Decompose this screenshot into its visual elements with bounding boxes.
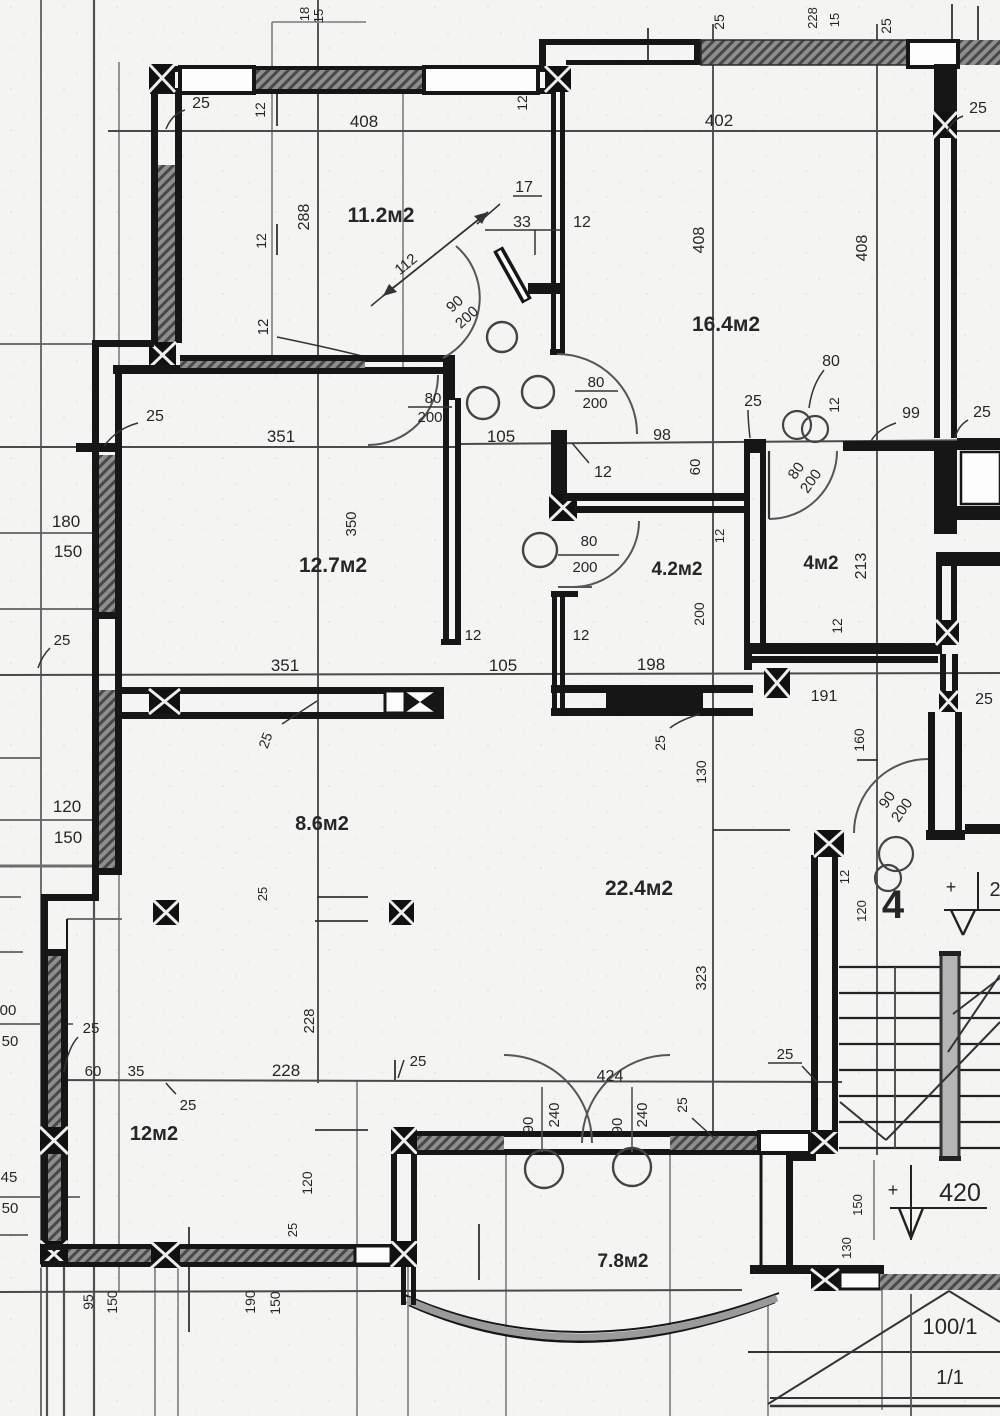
svg-text:240: 240 bbox=[546, 1102, 563, 1127]
dim 160 rotated bbox=[851, 728, 867, 752]
dim 99 with leader bbox=[871, 405, 920, 441]
column K10 (x 549, y 494) bbox=[549, 494, 577, 521]
dim 25 leader (12.7 bottom wall) bbox=[255, 701, 317, 750]
title block diagonal wedge bbox=[748, 1291, 1000, 1406]
dim 408 top bbox=[350, 112, 378, 131]
dim 90/240 rotated pair (right balcony door) bbox=[609, 1102, 651, 1134]
svg-text:12: 12 bbox=[252, 102, 268, 118]
column K6 bottom mid bbox=[151, 1242, 180, 1268]
svg-text:105: 105 bbox=[489, 656, 517, 675]
dim 90/200 rotated diagonal (door D1) bbox=[440, 290, 482, 333]
svg-text:100/1: 100/1 bbox=[922, 1314, 977, 1339]
dimension tick x=395 room12 bbox=[394, 1060, 396, 1080]
tick y=830 bbox=[713, 829, 790, 831]
svg-text:12: 12 bbox=[573, 627, 590, 644]
axis line vertical x=882 bottom bbox=[881, 1274, 883, 1410]
column K3 left mid bbox=[149, 342, 176, 368]
dim 80 (door D4) with leader bbox=[809, 353, 840, 408]
window box in 12.7 bottom wall bbox=[385, 691, 405, 713]
dim 408 rotated (right of 16.4) bbox=[854, 235, 871, 262]
wall: 4m2 bottom wall (y 643-663) bbox=[744, 643, 942, 670]
svg-text:4.2м2: 4.2м2 bbox=[651, 559, 702, 580]
wall: right wall upper double (x 934-957, y 138-438) bbox=[934, 64, 957, 438]
room label 16.4m2 bbox=[692, 313, 760, 336]
svg-text:213: 213 bbox=[853, 553, 870, 580]
column K16 (x 811, y 1269) bbox=[811, 1269, 839, 1291]
dim 25 rotated with leader (below 198 wall) bbox=[652, 714, 700, 751]
dim 25 (left wall) leader bbox=[104, 408, 164, 446]
dim 98 bbox=[653, 427, 671, 444]
wall: right double below (y 566-620) bbox=[936, 566, 957, 620]
wall: right wall of room 12.7 (x 443-461) bbox=[441, 355, 461, 645]
door D2 arc (into room 12.7) bbox=[368, 375, 438, 445]
axis line vertical x=768 bottom bbox=[767, 1297, 769, 1416]
dim 12 rotated upper bbox=[252, 102, 268, 118]
dim 130 rotated (landing) bbox=[839, 1237, 854, 1259]
svg-text:80: 80 bbox=[588, 374, 605, 391]
svg-text:4: 4 bbox=[882, 883, 905, 927]
window W2 in top wall bbox=[424, 67, 538, 93]
main dimension line y=441 right bbox=[460, 440, 1000, 444]
left edge dash y=758 bbox=[0, 757, 40, 759]
svg-text:191: 191 bbox=[811, 688, 838, 705]
dim 80/200 rotated (door D4) bbox=[782, 456, 825, 497]
wall: right double (y 645-691) bbox=[940, 654, 958, 691]
axis line vertical x=272 bbox=[271, 22, 273, 355]
axis line vertical x=713 bbox=[712, 24, 714, 1135]
room label 12.7m2 bbox=[299, 554, 367, 577]
center tick y=921 bbox=[315, 920, 368, 922]
svg-text:323: 323 bbox=[693, 965, 710, 990]
main dimension line y=675 bbox=[0, 673, 1000, 675]
wall: step-out at lower left (y 894-956) bbox=[41, 894, 99, 956]
dim 25 (4m2 left) with leader bbox=[744, 393, 762, 438]
room label 7.8m2 bbox=[597, 1251, 648, 1272]
apartment number 4 bbox=[882, 883, 905, 927]
wall: outer left wall (x 92-122, y 340-875) bbox=[92, 340, 122, 898]
dim 35 bottom bbox=[128, 1063, 145, 1080]
wall: 4m2 left wall (x 744-766) bbox=[744, 450, 766, 654]
dim 198 bbox=[637, 655, 665, 674]
svg-text:408: 408 bbox=[350, 112, 378, 131]
stair stringer band bbox=[939, 951, 961, 1161]
dim 12 (mid) bbox=[573, 627, 590, 644]
main dimension line y=1080 bbox=[41, 1080, 842, 1082]
dim 323 rotated bbox=[693, 965, 710, 990]
main dimension line y=447 left bbox=[0, 446, 460, 448]
wall: top exterior hatched band (x 701-1000) bbox=[701, 40, 1000, 65]
dim 25 with leader (left bottom) bbox=[64, 1020, 99, 1072]
svg-text:130: 130 bbox=[693, 760, 709, 784]
wall: left wall of room 16.4 (x 551-565) bbox=[528, 92, 565, 355]
left edge dash y=1235 bbox=[0, 1234, 28, 1236]
svg-text:4м2: 4м2 bbox=[803, 553, 838, 574]
svg-text:120: 120 bbox=[299, 1171, 315, 1195]
svg-text:90: 90 bbox=[520, 1117, 537, 1134]
dim 120 rotated (stair area) bbox=[854, 900, 869, 922]
dimension tick x=479 bottom bbox=[478, 1224, 480, 1280]
title 1/1 bbox=[936, 1367, 964, 1389]
svg-text:+: + bbox=[946, 877, 957, 897]
dim 60 rotated bbox=[687, 459, 704, 476]
dimension tick x=189 bottom bbox=[188, 1227, 190, 1332]
column K5 left bottom corner bbox=[40, 1241, 68, 1267]
svg-text:350: 350 bbox=[343, 511, 360, 536]
column C1 freestanding (x 153, y 900) bbox=[153, 900, 179, 925]
svg-text:25: 25 bbox=[146, 408, 164, 425]
dim 12 rotated (stair area) bbox=[837, 870, 852, 884]
wall: white box section (x 758-811) bbox=[759, 1132, 810, 1153]
top rotated dims 228/15 bbox=[805, 7, 842, 29]
svg-text:25: 25 bbox=[711, 14, 727, 30]
door knob circles at stair door bbox=[875, 837, 913, 891]
wall: right corridor band y 552-566 bbox=[936, 552, 1000, 566]
wall edge projection x=47 bottom bbox=[46, 1267, 48, 1416]
svg-text:12: 12 bbox=[573, 214, 591, 231]
dim 112 rotated diagonal bbox=[392, 250, 421, 278]
svg-text:130: 130 bbox=[839, 1237, 854, 1259]
svg-text:25: 25 bbox=[674, 1097, 690, 1113]
window W1 in top wall bbox=[180, 67, 254, 93]
svg-text:60: 60 bbox=[85, 1063, 102, 1080]
dim 95 rotated bottom bbox=[80, 1294, 96, 1310]
svg-text:25: 25 bbox=[744, 393, 762, 410]
dim 150 rotated bottom left bbox=[104, 1290, 120, 1314]
svg-text:25: 25 bbox=[652, 735, 668, 751]
dim 105 upper bbox=[487, 427, 515, 446]
dim 191 bbox=[811, 688, 838, 705]
witness line x=403 room 11.2 bbox=[402, 72, 404, 368]
dim 190 rotated bottom bbox=[242, 1290, 258, 1314]
svg-text:25: 25 bbox=[255, 887, 270, 901]
dim 25 with underline + leader (stair hall) bbox=[768, 1046, 817, 1082]
dimension tick x=277 upper bbox=[276, 93, 278, 126]
dimension line y=609 left bbox=[0, 608, 119, 610]
dim 200 rotated (x704) bbox=[691, 602, 707, 626]
door D6 arc (stair hall door) bbox=[854, 759, 928, 833]
dimension line y=343 left bbox=[0, 343, 119, 345]
line below 100/1 bbox=[910, 1294, 912, 1416]
door D4 arc bbox=[769, 451, 837, 519]
dim 12 with leader (below 98) bbox=[572, 443, 612, 481]
svg-text:16.4м2: 16.4м2 bbox=[692, 313, 760, 336]
axis line x=155 bottom bbox=[154, 1267, 156, 1416]
svg-text:120: 120 bbox=[53, 797, 81, 816]
dimension tick x=978 top bbox=[977, 6, 979, 42]
wall: hatched band bottom right (x 880-1000) bbox=[880, 1274, 1000, 1290]
left edge dim 45/50 cut bbox=[1, 1169, 19, 1217]
top rotated dim 25 (x891) bbox=[878, 18, 894, 34]
elevation marker +2 (upper) bbox=[944, 872, 1000, 935]
stair break diagonals bbox=[840, 975, 1000, 1140]
window W5 right edge bbox=[961, 452, 1000, 504]
short top line y=22 bbox=[272, 21, 366, 23]
elevation text +420 bbox=[888, 1179, 981, 1207]
dim 12 with leader (12.7 top wall) bbox=[255, 319, 362, 356]
dim 25 top left with leader bbox=[166, 95, 210, 129]
svg-text:25: 25 bbox=[83, 1020, 100, 1037]
svg-text:150: 150 bbox=[54, 542, 82, 561]
column K14 (x 939, y 691) bbox=[939, 691, 958, 712]
window W3 top right bbox=[908, 41, 958, 67]
svg-text:25: 25 bbox=[975, 691, 993, 708]
dim 25 right lower bbox=[975, 691, 993, 708]
svg-text:200: 200 bbox=[417, 409, 442, 426]
dimension tick x=648 top bbox=[647, 28, 649, 64]
door D3 arc (hall to 16.4 lower) bbox=[557, 354, 637, 434]
balcony double door right arc bbox=[582, 1055, 670, 1152]
wall: bottom exterior of room 12 (y 1244-1267) bbox=[41, 1244, 417, 1267]
dim 25 rotated + leader (balcony right) bbox=[674, 1097, 714, 1138]
door knob circles at 4m2 door bbox=[783, 411, 828, 442]
svg-text:12: 12 bbox=[253, 233, 269, 249]
balcony door knob circle right bbox=[613, 1148, 651, 1186]
dim 25 top right with leader bbox=[947, 100, 987, 132]
axis line vertical x=357 bottom bbox=[356, 1080, 358, 1416]
svg-text:12: 12 bbox=[255, 319, 272, 336]
svg-text:288: 288 bbox=[296, 204, 313, 231]
inner step line y=919 bbox=[67, 918, 122, 920]
svg-text:25: 25 bbox=[192, 95, 210, 112]
dim 90/200 rotated (stair door) bbox=[873, 785, 916, 826]
column K17 in 12.7 bottom wall bbox=[149, 689, 180, 714]
svg-text:402: 402 bbox=[705, 111, 733, 130]
axis line vertical x=119 bbox=[118, 62, 120, 1292]
dim 80/200 stacked (door to 12.7) bbox=[408, 390, 452, 426]
dim 12 rotated near corner bbox=[514, 95, 530, 111]
svg-text:12: 12 bbox=[465, 627, 482, 644]
wall: lift shaft (x 758-884, y 1155-1274) bbox=[750, 1154, 884, 1274]
room label 4m2 bbox=[803, 553, 838, 574]
window W4 in room-12 bottom wall bbox=[355, 1246, 391, 1264]
svg-text:7.8м2: 7.8м2 bbox=[597, 1251, 648, 1272]
svg-text:12.7м2: 12.7м2 bbox=[299, 554, 367, 577]
svg-text:25: 25 bbox=[969, 100, 987, 117]
svg-text:+: + bbox=[888, 1180, 899, 1200]
dim 424 bbox=[597, 1068, 624, 1085]
axis line vertical x=318 bbox=[317, 0, 319, 1083]
svg-text:12: 12 bbox=[594, 464, 612, 481]
dim 120 rotated (x 312) bbox=[299, 1171, 315, 1195]
svg-text:408: 408 bbox=[854, 235, 871, 262]
door D5 arc (into 4.2 hall) bbox=[558, 521, 639, 587]
door knob circle C-a bbox=[487, 322, 517, 352]
dim 150 rotated (landing) bbox=[850, 1194, 865, 1216]
wall: left wall of room 11.2 (x 151-182, y 92-343) bbox=[151, 92, 182, 343]
svg-text:45: 45 bbox=[1, 1169, 18, 1186]
elevation text +2 upper bbox=[946, 877, 1000, 901]
svg-text:25: 25 bbox=[777, 1046, 794, 1063]
svg-text:15: 15 bbox=[827, 13, 842, 27]
svg-text:408: 408 bbox=[691, 227, 708, 254]
dim 25 right with leader bbox=[955, 404, 991, 438]
wall: 4m2 top wall right part (x 843-940) bbox=[843, 441, 942, 451]
left edge dash y=897 bbox=[0, 896, 21, 898]
svg-text:2: 2 bbox=[989, 879, 1000, 901]
room label 8.6m2 bbox=[295, 813, 349, 835]
svg-text:18: 18 bbox=[297, 7, 312, 21]
tick under 160 y=760 bbox=[857, 759, 878, 761]
svg-text:8.6м2: 8.6м2 bbox=[295, 813, 349, 835]
svg-text:228: 228 bbox=[301, 1008, 318, 1033]
fixture circle in hall bbox=[523, 533, 557, 567]
center tick y=897 bbox=[317, 896, 368, 898]
wall: balcony front of 7.8 (y 1131-1155) bbox=[417, 1131, 761, 1155]
dim 12 rotated lower bbox=[253, 233, 269, 249]
svg-text:150: 150 bbox=[104, 1290, 120, 1314]
svg-text:25: 25 bbox=[878, 18, 894, 34]
dimension tick x=952 top bbox=[951, 4, 953, 40]
dim 288 rotated (room 11.2) bbox=[296, 204, 313, 231]
svg-text:15: 15 bbox=[311, 9, 326, 23]
svg-text:198: 198 bbox=[637, 655, 665, 674]
column C2 freestanding (x 389, y 900) bbox=[389, 900, 414, 925]
dim 12 (hall right) bbox=[573, 214, 591, 231]
column K11 (x 764, y 668) bbox=[764, 668, 790, 698]
svg-text:90: 90 bbox=[609, 1118, 626, 1135]
SECTION: stairs and annex bbox=[748, 872, 1000, 1416]
svg-text:11.2м2: 11.2м2 bbox=[348, 204, 415, 227]
wall edge projection x=64 bottom bbox=[63, 1267, 65, 1416]
wall: room 4.2 bottom wall y 685-716 (x 551-753) bbox=[551, 685, 753, 716]
svg-text:228: 228 bbox=[272, 1061, 300, 1080]
svg-text:95: 95 bbox=[80, 1294, 96, 1310]
title 100/1 bbox=[922, 1314, 977, 1339]
center tick y=1130 bbox=[315, 1129, 368, 1131]
svg-text:105: 105 bbox=[487, 427, 515, 446]
wall: balcony side stub below K7 bbox=[401, 1267, 416, 1305]
room label 4.2m2 bbox=[651, 559, 702, 580]
wall: top exterior of room 16.4 (y 39-65) bbox=[539, 39, 701, 66]
dim 90/240 rotated pair (left balcony door) bbox=[520, 1102, 563, 1133]
wall: lower-left exterior hatched (x 41-68, y 952-1244) bbox=[41, 952, 68, 1244]
dimension tick x=277 lower bbox=[276, 224, 278, 255]
svg-text:80: 80 bbox=[425, 390, 442, 407]
svg-text:424: 424 bbox=[597, 1068, 624, 1085]
long construction line y=1292 bbox=[0, 1290, 742, 1292]
dim 60 bottom bbox=[85, 1063, 102, 1080]
svg-text:180: 180 bbox=[52, 512, 80, 531]
svg-text:33: 33 bbox=[513, 214, 531, 231]
dim 228 rotated bbox=[301, 1008, 318, 1033]
wall: bottom wall of room 12.7 (y 687-719, x 121-444) bbox=[121, 687, 444, 719]
dim 12 rotated (4m2 bottom) bbox=[829, 618, 845, 634]
dim 25 rotated (8.6 area) bbox=[255, 887, 270, 901]
dim 350 rotated (room 12.7) bbox=[343, 511, 360, 536]
left edge dim 25 bbox=[38, 632, 70, 668]
dim 228 bottom bbox=[272, 1061, 300, 1080]
wall: corridor wall y 493-513 (x 563-746) bbox=[563, 493, 746, 513]
svg-text:35: 35 bbox=[128, 1063, 145, 1080]
svg-text:351: 351 bbox=[267, 427, 295, 446]
wall: right side solid block (y 441-534) bbox=[934, 438, 1000, 534]
column K9 (x 811, y 1131) bbox=[811, 1130, 838, 1154]
wall: top exterior of room 11.2 (y 66-94) bbox=[150, 66, 555, 94]
balcony door knob circle left bbox=[525, 1150, 563, 1188]
top rotated dims 18/15 bbox=[297, 7, 326, 23]
svg-text:12: 12 bbox=[837, 870, 852, 884]
svg-text:25: 25 bbox=[973, 404, 991, 421]
wall: stub from K3 to outer left wall (y 340-372) bbox=[92, 340, 183, 372]
door knob circle C-c bbox=[467, 387, 499, 419]
left edge dim 120/150 bbox=[53, 797, 82, 847]
dim 80/200 stacked (door D3) bbox=[575, 374, 618, 412]
dim 351 lower bbox=[271, 656, 299, 675]
dim 408 rotated (left of 16.4) bbox=[691, 227, 708, 254]
svg-text:50: 50 bbox=[2, 1033, 19, 1050]
svg-text:98: 98 bbox=[653, 427, 671, 444]
svg-text:12: 12 bbox=[829, 618, 845, 634]
dim 213 rotated bbox=[853, 553, 870, 580]
window sill line y=1197 left bbox=[0, 1196, 80, 1198]
dim 25 rotated (x 297) bbox=[285, 1223, 300, 1237]
svg-text:25: 25 bbox=[285, 1223, 300, 1237]
svg-text:25: 25 bbox=[54, 632, 71, 649]
dim 25 (x418) bbox=[398, 1053, 426, 1078]
axis line vertical x=408 bottom bbox=[407, 1266, 409, 1416]
svg-text:25: 25 bbox=[410, 1053, 427, 1070]
dim 25 below line with leader bbox=[166, 1083, 196, 1114]
dim 12 rotated (near 80) bbox=[826, 397, 842, 413]
svg-text:50: 50 bbox=[2, 1200, 19, 1217]
svg-text:12: 12 bbox=[514, 95, 530, 111]
door D4 (4m2) leaf bbox=[768, 451, 770, 519]
wall: vertical connector x 391-417 (y 1154-1241) bbox=[391, 1154, 417, 1241]
dimension line y=866 left bbox=[0, 865, 98, 868]
door jamb projection x=506 bbox=[505, 1152, 507, 1416]
svg-text:190: 190 bbox=[242, 1290, 258, 1314]
door D1 leaf (room 11.2 entry, diagonal) bbox=[498, 249, 527, 301]
column K1 top-left bbox=[149, 64, 175, 92]
dim 12 (room 12.7 right) bbox=[465, 627, 482, 644]
svg-text:12: 12 bbox=[826, 397, 842, 413]
dim 351 upper bbox=[267, 427, 295, 446]
svg-text:120: 120 bbox=[854, 900, 869, 922]
dim 12 rotated (x713) bbox=[712, 529, 727, 543]
svg-text:228: 228 bbox=[805, 7, 820, 29]
left edge dim 00/50 cut bbox=[0, 1002, 18, 1050]
wall: middle vertical x 552-565 (y 591-716) bbox=[551, 591, 578, 711]
room label 11.2m2 bbox=[348, 204, 415, 227]
dim 402 top bbox=[705, 111, 733, 130]
window sill line y=820 left bbox=[0, 819, 122, 821]
dim 130 rotated bbox=[693, 760, 709, 784]
balcony curved front wall of 7.8 bbox=[405, 1293, 779, 1342]
column K13 (x 936, y 620) bbox=[936, 620, 959, 645]
svg-text:12: 12 bbox=[712, 529, 727, 543]
svg-text:240: 240 bbox=[634, 1102, 651, 1127]
door knob circle C-b bbox=[522, 376, 554, 408]
window sill line y=533 left bbox=[0, 532, 119, 534]
stair treads bbox=[839, 967, 1000, 1148]
wall: white box right of K16 bbox=[840, 1272, 880, 1289]
column K15 (x 815, y 830) bbox=[814, 830, 844, 857]
wall: pier below door (x 551-567, y 430-518) bbox=[551, 430, 567, 518]
dim 80/200 stacked (hall door D5) bbox=[558, 533, 619, 576]
axis line vertical x=877 bbox=[876, 24, 878, 1155]
room label 22.4m2 bbox=[605, 877, 673, 900]
svg-text:99: 99 bbox=[902, 405, 920, 422]
window sill line y=1024 left bbox=[0, 1023, 73, 1025]
axis line x=178 bottom bbox=[177, 1267, 179, 1416]
svg-text:150: 150 bbox=[54, 828, 82, 847]
svg-text:17: 17 bbox=[515, 179, 533, 196]
SECTION: doors bbox=[368, 204, 928, 1188]
svg-text:22.4м2: 22.4м2 bbox=[605, 877, 673, 900]
door jamb projection x=670 bbox=[669, 1152, 671, 1416]
room label 12m2 bbox=[130, 1123, 178, 1145]
wall: right double (y 712-830) bbox=[926, 712, 1000, 840]
